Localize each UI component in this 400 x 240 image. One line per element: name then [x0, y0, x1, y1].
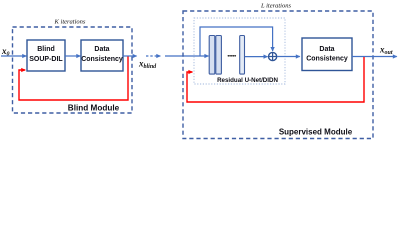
block Data Consistency (supervised)	[302, 38, 352, 71]
svg-text:Data: Data	[319, 46, 334, 53]
wire output arrow of blind module	[123, 55, 137, 57]
wire skip connection over U-Net	[200, 27, 273, 56]
wire dashed arrow between modules	[146, 55, 160, 57]
wire arrow SOUP-DIL to Data Consistency	[65, 55, 80, 57]
svg-text:K iterations: K iterations	[54, 18, 86, 25]
block Data Consistency (blind)	[81, 40, 123, 71]
layer bar 3	[240, 36, 245, 75]
wire adder to Data Consistency	[277, 56, 300, 58]
svg-text:Blind Module: Blind Module	[68, 103, 120, 112]
blind module dashed border	[13, 27, 133, 113]
wire bar3 to adder	[245, 56, 268, 58]
svg-text:Consistency: Consistency	[306, 55, 348, 62]
wire into supervised module	[165, 55, 208, 57]
layer bar 1	[209, 36, 215, 75]
svg-text:Consistency: Consistency	[81, 56, 123, 63]
wire red feedback loop (supervised module)	[187, 57, 364, 102]
layer bar 2	[216, 36, 222, 75]
svg-text:Data: Data	[94, 46, 109, 53]
ellipsis dots	[228, 55, 237, 57]
wire red feedback loop (blind module)	[19, 57, 128, 101]
svg-text:Blind: Blind	[37, 46, 55, 53]
wire output arrow	[352, 56, 397, 58]
svg-text:L iterations: L iterations	[260, 2, 292, 9]
svg-text:SOUP-DIL: SOUP-DIL	[29, 56, 63, 63]
residual U-Net/DIDN dotted box	[194, 18, 285, 84]
svg-text:Residual U-Net/DIDN: Residual U-Net/DIDN	[217, 77, 278, 84]
adder (circle plus)	[269, 52, 277, 60]
wire input arrow into Blind SOUP-DIL	[1, 55, 26, 57]
svg-text:Supervised Module: Supervised Module	[279, 128, 353, 137]
block Blind SOUP-DIL	[27, 40, 65, 71]
supervised module dashed border	[183, 11, 373, 139]
